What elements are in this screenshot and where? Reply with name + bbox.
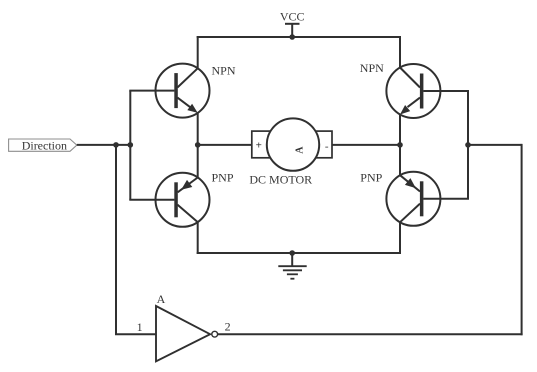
svg-text:2: 2 <box>225 319 231 333</box>
wire motor right lead <box>331 144 400 146</box>
wire Q2 base stub <box>129 199 174 201</box>
junction dot right motor node <box>397 142 403 148</box>
wire right emitter riser (Q3 to Q4) <box>399 115 401 176</box>
transistor Q4 PNP (bottom-right) <box>386 172 440 226</box>
motor M1 DC MOTOR <box>252 118 332 170</box>
junction dot inverter input branch <box>113 142 119 148</box>
svg-text:1: 1 <box>137 320 143 334</box>
wire Direction to base bus <box>77 144 131 146</box>
wire Q4 base stub <box>423 198 469 200</box>
ground symbol <box>278 253 306 279</box>
junction dot left motor node <box>195 142 201 148</box>
wire right feedback riser <box>521 144 523 335</box>
wire right base bus <box>467 91 469 199</box>
svg-text:DC MOTOR: DC MOTOR <box>249 173 312 187</box>
svg-text:A: A <box>157 292 166 306</box>
wire Q3 collector riser <box>399 36 401 68</box>
svg-text:PNP: PNP <box>360 170 382 184</box>
svg-text:-: - <box>325 140 329 152</box>
wire inverter input drop <box>116 145 156 334</box>
svg-text:Direction: Direction <box>22 139 67 153</box>
wire Q1 base stub <box>129 90 174 92</box>
junction dot right base node <box>465 142 471 148</box>
wire Q3 base stub <box>423 90 469 92</box>
svg-text:A: A <box>294 146 305 154</box>
wire motor left lead <box>198 144 253 146</box>
wire Q1 collector riser <box>197 36 199 68</box>
inverter U1 (NOT gate) <box>156 306 218 361</box>
svg-text:PNP: PNP <box>212 171 234 185</box>
junction dot left base branch <box>128 142 134 148</box>
VCC power symbol <box>285 24 300 37</box>
net flag Direction <box>9 139 77 151</box>
svg-text:+: + <box>256 140 262 152</box>
svg-text:NPN: NPN <box>360 61 384 75</box>
wire right base node to feedback riser <box>468 144 522 146</box>
transistor Q1 NPN (top-left) <box>156 64 210 118</box>
transistor Q3 NPN (top-right) <box>386 64 440 118</box>
wire Q4 collector to ground rail <box>399 222 401 254</box>
junction dot VCC tap <box>289 34 295 40</box>
wire ground bottom rail <box>197 252 401 254</box>
wire Q2 collector to ground rail <box>197 222 199 254</box>
transistor Q2 PNP (bottom-left) <box>156 173 210 227</box>
svg-text:NPN: NPN <box>212 64 236 78</box>
junction dot ground tap <box>289 250 295 256</box>
wire left emitter riser (Q1 to Q2) <box>197 113 199 178</box>
wire VCC top rail <box>197 36 401 38</box>
wire inverter output return <box>218 333 523 335</box>
svg-text:VCC: VCC <box>280 9 305 23</box>
wire left base bus <box>129 91 131 200</box>
